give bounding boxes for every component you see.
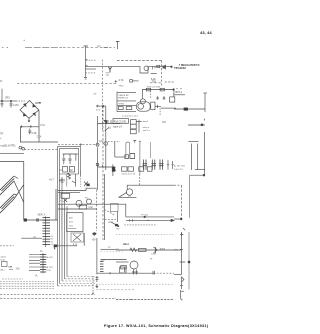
plus mark top [180,233,183,236]
boundary pair verticals [102,106,104,240]
label 4 mark [133,141,136,143]
connector CN1 [116,42,120,50]
wire bottom tick [195,168,205,170]
node dot corner [203,174,205,176]
resistor R14 [160,88,164,91]
wire right bus x181.5 [181,232,183,275]
boundary box inner [60,148,79,283]
small rect comps [118,107,123,110]
wire y216.9 [126,216,174,218]
boundary nested v4 [64,200,66,279]
mark small [183,228,185,230]
node tick [24,39,26,41]
svg-text:3.3E: 3.3E [32,132,37,135]
wire row y189.5 [58,188,97,190]
svg-text:B74 a: B74 a [176,91,183,94]
svg-text:0.4 0.7%: 0.4 0.7% [174,169,183,171]
capacitor C16 [156,96,158,100]
svg-text:A 1.5V: A 1.5V [47,266,54,269]
svg-text:C&R: C&R [101,259,106,261]
resistor R101 zigzag [130,248,137,251]
svg-text:Figure 17. WX/A-101, Schematic: Figure 17. WX/A-101, Schematic Diagram(3… [104,324,209,328]
transistor marks [72,174,88,187]
wire dashed boundary vertical [101,60,103,130]
comp marks [132,270,138,275]
wire mid connect [115,156,126,158]
curve hook [113,167,116,171]
svg-text:w. gorunm a. birx: w. gorunm a. birx [122,114,139,117]
transformer T101 box [67,213,83,232]
node blob left [54,245,57,247]
wire left edge bottom [112,164,114,176]
fuse F1 [19,146,22,149]
small box left edge [111,204,119,212]
wire row y209 [58,208,97,210]
wire long dashed boundary [17,82,162,85]
svg-text:TP10: TP10 [118,85,124,87]
bus x96.9 bottom [96,238,98,274]
capacitor C103 inside box [62,154,65,164]
svg-text:C7A: C7A [40,124,45,127]
top comps mid-left block [59,177,65,183]
svg-text:A 4.5V: A 4.5V [47,256,54,259]
relay K1 box [170,97,175,102]
wire dashdot x181 [181,185,183,219]
resistor boxes inside [63,167,68,173]
note row long 2 [0,297,116,299]
wire dash-dot C line [86,59,96,61]
box AGB [61,193,70,198]
winding cross X [14,176,24,202]
node dot x189 [188,261,190,263]
wire row y192.7 [58,192,80,194]
node dots top-left [2,47,8,49]
input terminal E1 [0,80,2,82]
wire long y185.2 [127,184,174,186]
svg-text:+5V: +5V [92,240,97,242]
junction ring [96,163,99,166]
wire dashed AC in [0,245,14,247]
oval transformer T2 [136,102,150,111]
node junction bus [96,143,99,146]
wire junction x94 [93,232,95,236]
node dot 181 [180,218,182,220]
svg-text:TP 103: TP 103 [141,215,149,217]
node dots [93,233,95,235]
node cross left [96,105,99,108]
wire thin drop [189,175,191,218]
wire y274.5 [174,274,182,276]
wire dashed to bridge [16,100,26,102]
diode D4 [33,113,35,116]
boundary nested v3 [61,178,63,281]
svg-text:43, 44: 43, 44 [200,30,212,35]
box lower left [120,267,126,273]
wire dashed drop [159,108,161,116]
diagonal dashes [105,210,116,216]
svg-text:(1Q): (1Q) [1,259,5,261]
node dot right [173,89,175,91]
wire row1 to right [136,120,142,122]
wire regulator line right [148,65,172,67]
IC block row1 box2 [131,120,137,125]
resistor R22 [130,154,135,159]
wire dashed boundary right [161,61,163,87]
capacitor C1 [1,101,4,107]
arrow down J1 [54,246,55,249]
wire vertical x150 [149,142,151,158]
note row right dashed [96,283,174,285]
wire bridge left vertical [20,127,22,142]
wire bus lower branch [98,166,116,168]
svg-text:hope y A: hope y A [113,126,122,129]
resistor R21 [125,155,129,159]
wire bridge output down [28,118,30,122]
transistor Q1 [144,66,149,71]
note row right short [96,289,135,291]
wire +5 feed [21,237,42,239]
wire bt out [174,94,185,96]
wire row y204.8 [58,203,126,205]
wire DC rail [20,141,58,143]
winding W1 ladder [0,176,14,195]
capacitor C2 [10,101,13,108]
node cross mid rail [80,143,83,146]
IC block row1 box [113,119,129,124]
wire y251 dashed [101,250,123,252]
node dot A [1,100,2,101]
wire dash-dot lower boundary [165,81,174,83]
bridge rectifier CR1 diamond [20,101,39,119]
resistor ticks [36,219,39,221]
wire dashed bus upper [117,60,162,62]
transistor Q103 [126,189,132,195]
wire right bus top [204,93,206,112]
svg-text:2.2M: 2.2M [13,104,18,107]
vertical pair with hat [126,142,130,157]
wire y273.2 mid [124,272,154,274]
box right of T2 [151,102,155,109]
wire dashed mains [24,149,58,151]
wire upper branch [118,192,136,197]
tick y273 [109,272,111,274]
wire right horizontal [174,108,205,110]
svg-text:R13 C15 R14: R13 C15 R14 [147,86,161,88]
wire top row R13 line [142,89,174,91]
battery pair vertical [192,144,198,171]
capacitor C7 [28,129,31,135]
comp R102 [139,248,147,251]
wire dashed mid [150,91,152,99]
svg-text:4.7k: 4.7k [119,78,125,82]
wire dashed arrow x93 [92,276,94,294]
wire y273.2 [97,272,124,274]
inductor L2 dip [140,66,148,73]
terminal block TB1 [2,262,8,267]
connector pins stack [100,262,104,272]
dashes right [154,272,175,274]
corner into Q103 [126,185,128,189]
left text rows bottom [2,278,23,280]
cap dark blob [87,184,90,186]
diode CR2 [163,65,166,69]
resistor R4 [130,80,133,83]
transistor Q104 [130,261,138,269]
wire dashed top rail [25,47,62,49]
wire corner branch [125,204,127,217]
svg-text:TRJ: TRJ [174,249,178,251]
wire dashed right x96.7 [96,190,98,232]
svg-text:C9&C8 R2: C9&C8 R2 [118,95,129,97]
tick bus top [204,92,208,94]
svg-text:A, 101 103: A, 101 103 [174,165,185,168]
node end dot [171,66,173,68]
svg-text:and T a: and T a [143,130,151,132]
arrow mark TB1 [8,266,13,269]
transistor Q3 [140,99,145,104]
svg-text:R10 C12 R1: R10 C12 R1 [114,121,127,123]
wire J2 feeds [29,255,40,271]
diagonal arrow ground [112,222,120,227]
node dot B [10,100,11,101]
wire vertical feeder [85,46,87,78]
svg-text:SER. A: SER. A [38,213,46,216]
label A2 diagonal [105,128,110,132]
svg-text:2R5: 2R5 [5,96,10,99]
winding W2 ladder [0,194,14,213]
note row long 3 [116,299,174,301]
svg-text:TP3: TP3 [152,81,157,84]
ticks below line [151,66,157,73]
wire y219 [174,218,182,220]
wire corner top right low [190,174,205,175]
connector J2 ladder [42,253,44,273]
boundary nested v5 [66,206,68,277]
wire rows middle column [117,93,136,112]
wire drop [124,267,126,272]
dotted vertical inside boundary [61,205,63,230]
wire dashed y225.2 [124,224,156,226]
wire input horizontal [0,100,16,102]
text row faint [116,234,174,236]
IC block row2 box [131,124,137,129]
bus vertical main [97,116,99,190]
dashed vertical x80.7 [80,171,82,188]
boundary box outer [58,146,81,285]
diode CR10 [66,174,68,187]
svg-text:C103: C103 [151,254,157,256]
svg-text:R7R6: R7R6 [118,104,124,106]
wire main regulator line [86,65,141,67]
diode CR3 blob [24,219,27,221]
wire mains line [0,153,24,155]
diode CR6 blob [184,108,188,110]
node cross [115,80,118,83]
wire thin x189 [188,232,190,290]
node dot y216.9 [144,216,146,218]
svg-text:band: band [143,121,149,123]
svg-text:R103: R103 [160,249,166,251]
wire y259.5 [101,259,127,261]
arrowhead right y220 [171,219,174,221]
middle column block frame [116,92,118,112]
wire input vertical [1,89,3,101]
comp on bus [96,276,99,282]
note row long 1 [0,294,95,296]
transistor junction [154,247,158,253]
resistor boxes bottom row [122,167,128,171]
wire dashed stub [86,72,97,74]
relay K101 box with X [71,233,84,242]
diode D3 [23,113,26,116]
svg-text:aV bV 4a 7c 3b: aV bV 4a 7c 3b [122,173,137,175]
svg-text:A2+r: A2+r [1,269,6,272]
X marks below AGB [63,198,67,202]
label box small [189,141,199,143]
resistor R13 [146,88,150,91]
capacitor C8 vertical [55,189,57,220]
wire T2 out [155,105,161,108]
wire stub [86,68,97,70]
wire AC arrow [35,101,41,104]
svg-text:J1A: J1A [16,268,21,271]
connector P1 circle [104,142,108,146]
capacitor C104 inside box [69,154,72,164]
node plus [20,125,32,128]
transistor Q101 [76,200,82,206]
wire y249 to right [101,248,117,250]
diode CR5 [104,121,107,124]
wire y220.4 [126,219,174,221]
svg-text:R9 R8 C4: R9 R8 C4 [118,98,128,100]
tick x181 [180,249,186,262]
svg-text:R102: R102 [124,244,130,246]
svg-text:TP4,R22: TP4,R22 [174,66,186,70]
svg-text:1C: 1C [59,170,62,172]
boundary bottoms turning right [67,276,95,278]
comp ticks y220 [130,219,133,221]
dash mark right [162,121,166,123]
wire drop to Q3 [141,90,143,100]
T2 core circle [138,104,144,110]
wire vertical boxes [138,120,140,133]
vertical v1 mid [114,142,116,157]
wire y262 [116,261,129,263]
bracket bottom [181,290,184,300]
arrow bus bottom [96,285,98,288]
junction comp [153,271,155,275]
wire bridge right vertical [38,110,40,142]
wire y245.8 [54,245,77,247]
wire inside box [63,154,78,161]
wire dashed from P1 [108,140,120,142]
wire left edge vertical [117,212,119,223]
wire dashed vert x139.7 [139,174,141,185]
wire R4 lead [133,80,139,82]
blob dark [112,167,115,171]
diode D2 [33,104,36,107]
wire main y250 [116,249,182,251]
svg-text:w/C: w/C [61,182,65,184]
diode D1 [24,104,26,107]
terminal T1 [84,46,89,65]
svg-text:0.5V: 0.5V [47,270,52,272]
wire dashed mid rail [58,144,98,146]
IC block row3 box [131,129,137,133]
transformer T1 enclosure [0,162,24,220]
transistor Q2 [109,67,112,73]
resistor R5 [157,65,160,67]
wire left junction to column [96,106,106,170]
dashdot y219 left [105,218,117,220]
node dot arrow [201,124,203,126]
connector J1 ladder [45,217,47,248]
svg-text:+A,7: +A,7 [49,178,55,181]
wire bottom rail T1 [24,219,58,221]
node dot [103,105,104,106]
vertical v4 hat [139,141,141,174]
ground GND1 [84,78,87,80]
wire right bus middle [204,119,206,175]
wire to right bus [161,107,176,109]
resistor zigzag vertical [68,173,71,180]
svg-text:what a: what a [143,126,150,129]
wire dash to left [174,184,182,186]
tick on branch [102,165,104,167]
svg-text:ma|31:14 TR1: ma|31:14 TR1 [1,145,17,148]
box A.B [79,205,87,209]
wire right edge drop [173,90,175,97]
transistor Q102 [87,199,92,204]
wire bus top to comps [98,123,121,125]
svg-text:C7A: C7A [37,136,42,139]
wire arrow line 125 [188,124,205,126]
blob dark left [115,224,117,226]
resistor R110 [121,266,127,269]
wire K101 right vert [83,233,85,246]
wire dashes left [96,109,100,111]
capacitor C17 [163,96,165,100]
diode string down [180,277,184,289]
fuse F2 [22,148,25,151]
wire bridge plus rail [21,126,40,128]
bottom comp row caps [143,160,147,170]
svg-text:ada%: ada% [1,257,6,259]
